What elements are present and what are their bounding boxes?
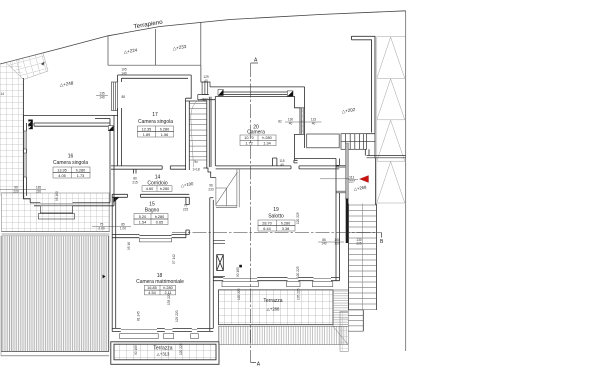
room 18 label	[136, 273, 184, 285]
svg-text:40: 40	[204, 79, 208, 83]
room 17 label	[138, 112, 173, 125]
svg-text:△+313: △+313	[157, 352, 170, 357]
level label +248	[59, 80, 74, 87]
svg-text:Salotto: Salotto	[268, 214, 284, 220]
west spine wall bagno/camera18	[112, 194, 116, 331]
svg-text:1.73: 1.73	[77, 174, 84, 178]
level label +224	[123, 47, 138, 54]
landing west cheek wall	[346, 143, 349, 243]
svg-text:Camera singola: Camera singola	[138, 119, 173, 125]
level label +268	[353, 184, 367, 191]
red entrance arrow	[360, 176, 369, 183]
bagno window sill	[139, 239, 171, 242]
corner marker room20 NE	[287, 91, 293, 97]
room 20 east window glass	[300, 108, 305, 135]
svg-text:120 225: 120 225	[179, 343, 183, 355]
svg-text:6.44: 6.44	[263, 227, 270, 231]
svg-text:225: 225	[356, 242, 362, 246]
svg-text:△+286: △+286	[267, 307, 280, 312]
svg-text:95 160: 95 160	[55, 191, 59, 201]
svg-text:90 165: 90 165	[134, 345, 138, 355]
room 19 label	[268, 207, 284, 220]
room 16 bottom wall	[30, 203, 114, 206]
level +100	[180, 181, 194, 188]
svg-text:1×18: 1×18	[192, 168, 199, 172]
dim stair bump 129/40	[203, 75, 209, 83]
level label +233	[172, 44, 187, 51]
corridor east stepped jamb	[203, 168, 215, 178]
dim near stair top 182/40	[194, 98, 208, 165]
svg-text:h.280: h.280	[155, 215, 165, 219]
room 17 top wall	[118, 75, 192, 99]
room 15 table	[134, 214, 168, 225]
svg-text:140: 140	[321, 242, 327, 246]
dim 86/140 near B	[318, 238, 344, 246]
dim window 135/140 + 88	[96, 92, 125, 100]
svg-text:4.05: 4.05	[58, 174, 65, 178]
room 17 west wall	[118, 75, 122, 166]
west terrace grid (left of room 16)	[2, 193, 110, 234]
svg-text:220: 220	[13, 189, 19, 193]
rotated grid patch on slope	[6, 53, 48, 79]
salotto top wall / room20 bottom wall	[216, 166, 340, 169]
svg-text:12.35: 12.35	[142, 127, 152, 131]
salotto east wall	[336, 159, 340, 281]
site boundary: terrapieno slope line	[0, 11, 406, 64]
svg-text:95 16: 95 16	[127, 242, 131, 250]
window west of room 17 (88)	[112, 82, 118, 111]
interior stair treads	[189, 99, 207, 168]
salotto west wall (camera18 east)	[210, 198, 214, 332]
svg-text:227: 227	[349, 180, 355, 184]
svg-text:4.60: 4.60	[146, 187, 153, 191]
room 17 table	[138, 126, 174, 137]
svg-text:135 225: 135 225	[297, 288, 301, 300]
svg-text:h.280: h.280	[160, 127, 170, 131]
svg-text:40: 40	[312, 122, 316, 126]
stair bump window top	[198, 65, 210, 99]
corridor/bagno divider wall	[112, 194, 189, 197]
interior stair bottom label	[192, 168, 199, 172]
room 18 table	[145, 285, 176, 295]
bagno east wall	[186, 197, 189, 237]
stair shaft walls (between 17 and 20)	[186, 98, 216, 170]
svg-text:1.34: 1.34	[263, 142, 270, 146]
site boundary: right property line	[405, 11, 407, 351]
svg-text:133 220: 133 220	[167, 293, 171, 305]
salotto window sills	[222, 282, 333, 287]
terrazza +313 (bottom centre)	[111, 342, 219, 365]
camera 18 window sills	[120, 334, 199, 339]
room 14 label	[147, 175, 168, 187]
svg-text:129 220: 129 220	[175, 310, 179, 322]
svg-text:215: 215	[183, 208, 189, 212]
svg-text:1.56: 1.56	[161, 133, 168, 137]
svg-text:220: 220	[36, 189, 42, 193]
room 20 wall stub 115	[273, 158, 277, 166]
svg-text:5.20: 5.20	[139, 215, 146, 219]
vestibule east wall	[365, 133, 375, 159]
room 20 label	[247, 124, 265, 135]
west deck vertical stripes	[1, 236, 109, 356]
svg-text:4.54: 4.54	[148, 291, 155, 295]
retaining wall east of landing	[367, 156, 406, 158]
deck edge mark	[103, 275, 106, 279]
dim 105/140 top left of room17	[121, 68, 127, 76]
svg-text:1.72: 1.72	[245, 142, 252, 146]
entrance door jambs	[336, 165, 346, 193]
svg-text:100: 100	[334, 242, 340, 246]
svg-text:Camera: Camera	[247, 130, 265, 136]
svg-text:2.00: 2.00	[98, 226, 104, 230]
svg-text:17: 17	[152, 112, 158, 118]
room 16 bay window	[38, 206, 74, 219]
room 14 table	[142, 186, 172, 192]
svg-text:233: 233	[208, 188, 214, 192]
entry landing label 111/227	[320, 176, 358, 184]
room 20 east wall	[295, 87, 305, 160]
roof area lines (+224 / +233)	[108, 22, 201, 65]
exterior stair main flight	[349, 204, 377, 311]
dim room20 window 130/40 123/40	[278, 118, 321, 126]
entry steps top	[341, 134, 376, 150]
label terrazza +286	[263, 298, 282, 312]
svg-text:13.95: 13.95	[57, 168, 67, 172]
svg-text:h.280: h.280	[163, 286, 173, 290]
svg-text:19: 19	[273, 207, 279, 213]
dim 115 label	[279, 159, 284, 167]
svg-text:81 145: 81 145	[137, 311, 141, 321]
svg-text:Camera matrimoniale: Camera matrimoniale	[136, 279, 184, 285]
svg-text:Terrazza: Terrazza	[263, 298, 282, 304]
corner marker room16 NW	[28, 120, 33, 130]
room 16 top wall	[34, 119, 110, 127]
svg-text:57 142: 57 142	[172, 254, 176, 264]
terrazza +286 (bottom right) grid	[219, 290, 334, 325]
svg-text:1.00: 1.00	[120, 226, 126, 230]
camera 18 bottom wall	[112, 328, 213, 331]
pillar with X	[217, 255, 224, 271]
svg-text:16: 16	[68, 154, 74, 160]
svg-text:82: 82	[278, 120, 282, 124]
svg-text:h.280: h.280	[160, 187, 170, 191]
svg-text:140: 140	[121, 72, 127, 76]
spine wall room16/17 junction	[110, 115, 114, 205]
section line B	[172, 232, 382, 234]
wardrobe box room 20	[307, 134, 340, 148]
dim 70/215 bagno door	[183, 204, 189, 212]
svg-text:88: 88	[122, 95, 126, 99]
svg-text:0.65: 0.65	[156, 220, 163, 224]
svg-text:9x: 9x	[194, 160, 198, 164]
svg-text:120 225: 120 225	[237, 288, 241, 300]
embankment hatch band left	[0, 59, 23, 198]
svg-text:120 225: 120 225	[296, 212, 300, 224]
room 16 outer top wall	[23, 114, 117, 116]
level label +202	[341, 107, 356, 114]
svg-text:Camera singola: Camera singola	[53, 160, 88, 166]
room 16 west windows	[23, 131, 26, 177]
room 15 label	[145, 202, 160, 214]
dim 75/2.00 85/1.00	[92, 222, 131, 230]
dim 130 near stairs	[356, 238, 362, 246]
landing east rail	[375, 158, 377, 205]
svg-text:140: 140	[99, 96, 105, 100]
room 16 table	[53, 167, 90, 178]
parcel number 14	[1, 92, 5, 96]
exterior stair lower flight	[348, 310, 363, 331]
svg-text:3.38: 3.38	[282, 227, 289, 231]
label terrazza +313	[153, 346, 172, 357]
divider wall stair/room20	[209, 97, 211, 167]
svg-text:28.70: 28.70	[262, 221, 272, 225]
svg-text:16.85: 16.85	[147, 286, 157, 290]
tiny dims under room16	[55, 191, 59, 201]
svg-text:90 165: 90 165	[236, 267, 240, 277]
terrazza +286 border stripes right	[333, 290, 348, 345]
svg-text:h.280: h.280	[76, 168, 86, 172]
room 20 west wall	[214, 97, 216, 166]
room 16 west outer wall	[23, 115, 30, 202]
svg-text:215: 215	[132, 181, 138, 185]
room 16 label	[53, 154, 88, 167]
north retaining L-wall	[352, 36, 376, 132]
dim 80/215 corridor door	[132, 177, 138, 185]
dim left 99/220 185/220	[0, 185, 46, 193]
svg-text:1.54: 1.54	[139, 220, 146, 224]
room 20 top wall	[210, 87, 305, 97]
triangle hatch band right	[377, 37, 406, 204]
section line A	[250, 63, 252, 363]
corner marker room20 NW	[218, 90, 223, 96]
corner marker bagno NW	[113, 198, 119, 203]
salotto west stub walls	[213, 240, 225, 276]
svg-text:h.280: h.280	[281, 221, 291, 225]
svg-text:Bagno: Bagno	[145, 208, 160, 214]
dim 96/233	[208, 184, 214, 192]
bagno bottom wall	[112, 235, 189, 238]
svg-text:40: 40	[289, 122, 293, 126]
svg-text:182: 182	[202, 98, 208, 102]
svg-text:120 225: 120 225	[296, 266, 300, 278]
corner marker room16 NE	[108, 126, 113, 131]
svg-text:1.89: 1.89	[143, 133, 150, 137]
terrazza +286 border stripes bottom	[219, 326, 349, 344]
planting bed beside lower flight	[340, 311, 348, 351]
terrace dim texts	[134, 343, 183, 355]
winder steps corridor to salotto	[216, 169, 239, 207]
vertical window dims bottom walls	[127, 212, 301, 322]
svg-text:10.70: 10.70	[244, 136, 254, 140]
window hatch marks room20 east bay	[302, 110, 304, 132]
room 20 table	[240, 135, 276, 146]
hall south wall	[294, 159, 336, 163]
survey point	[239, 265, 242, 268]
room 19 table	[258, 220, 295, 231]
salotto bottom wall	[213, 278, 339, 281]
corridor top wall	[111, 166, 186, 174]
svg-text:h.280: h.280	[262, 136, 272, 140]
label Terrapieno	[133, 19, 164, 31]
